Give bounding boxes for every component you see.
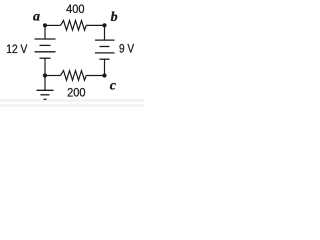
wire node b down to battery V2 <box>104 25 106 40</box>
wire node c up to battery V2 <box>104 59 106 75</box>
wire junction down to ground <box>44 76 46 91</box>
battery V1 12V plates <box>35 39 56 58</box>
wire R1 to node b <box>86 24 104 26</box>
svg-text:9 V: 9 V <box>119 43 135 56</box>
svg-text:400: 400 <box>66 2 85 16</box>
junction dot at ground node <box>43 73 47 77</box>
wire node a to R1 <box>45 24 61 26</box>
resistor R2 200 zigzag <box>61 71 87 81</box>
resistor R1 400 zigzag <box>61 21 87 31</box>
node c junction dot <box>102 73 106 77</box>
wire R2 to node c <box>86 75 104 77</box>
battery V2 9V plates <box>95 40 115 59</box>
svg-text:b: b <box>111 10 118 25</box>
svg-text:12 V: 12 V <box>6 43 27 56</box>
svg-text:c: c <box>110 79 117 94</box>
wire junction to R2 <box>45 75 61 77</box>
node b junction dot <box>102 23 106 27</box>
node a junction dot <box>43 23 47 27</box>
wire node a down to battery V1 <box>44 25 46 39</box>
svg-text:200: 200 <box>67 86 86 100</box>
svg-text:a: a <box>33 9 40 24</box>
ground <box>37 90 54 99</box>
wire battery V1 to junction <box>44 58 46 75</box>
